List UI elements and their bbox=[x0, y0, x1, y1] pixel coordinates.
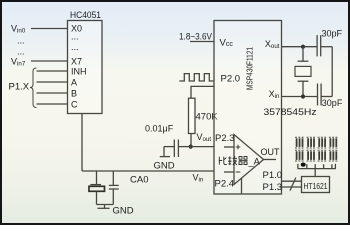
svg-text:MSP430F1121: MSP430F1121 bbox=[245, 47, 254, 90]
label Vin0 bbox=[11, 24, 26, 35]
humidity sensor branch wire bbox=[96, 171, 98, 185]
label HT1621 bbox=[304, 181, 328, 191]
plus input mark bbox=[236, 145, 241, 150]
wire INH input bbox=[37, 70, 68, 72]
LCD backplane comb connector bbox=[298, 164, 336, 169]
svg-text:P2.3: P2.3 bbox=[215, 133, 235, 144]
humidity sensor element bbox=[89, 185, 105, 205]
wire HC4051 output stub down bbox=[81, 114, 83, 172]
svg-text:A: A bbox=[71, 77, 77, 87]
minus input mark bbox=[236, 171, 241, 173]
wire comparator output bbox=[264, 159, 277, 161]
svg-text:B: B bbox=[71, 88, 77, 98]
resistor R1 470K bbox=[189, 98, 196, 133]
pin label X0 bbox=[71, 24, 82, 34]
wire P1.3 to HT1621 bbox=[282, 186, 302, 188]
label 470K bbox=[196, 112, 219, 123]
capacitor C3 30pF top bbox=[317, 35, 332, 56]
wire C input bbox=[37, 103, 68, 105]
wire CA0 net (long horizontal) bbox=[82, 170, 214, 172]
svg-text:3578545Hz: 3578545Hz bbox=[264, 107, 317, 117]
wire A input bbox=[37, 81, 68, 83]
pin label P1.0 bbox=[263, 170, 283, 181]
svg-text:...: ... bbox=[71, 42, 79, 52]
IC U1 HC4051 box bbox=[68, 21, 103, 114]
wire resistor bottom to node bbox=[190, 134, 192, 147]
capacitor C (bottom left) bbox=[109, 185, 119, 204]
pin label INH bbox=[71, 66, 87, 76]
svg-text:CA0: CA0 bbox=[130, 175, 148, 186]
label OUT bbox=[261, 147, 281, 157]
ground (bottom left) bbox=[98, 205, 110, 209]
IC U3 HT1621 box bbox=[302, 177, 330, 193]
svg-text:C: C bbox=[71, 99, 78, 109]
pin label Xin bbox=[269, 89, 280, 100]
svg-text:INH: INH bbox=[71, 66, 87, 76]
pin label P2.3 bbox=[215, 133, 235, 144]
label CA0 bbox=[130, 175, 148, 186]
IC U2 MSP430F1121 box bbox=[214, 21, 282, 195]
square wave symbol at P2.0 bbox=[179, 74, 214, 81]
svg-text:...: ... bbox=[71, 32, 79, 42]
pin label C bbox=[71, 99, 78, 109]
svg-text:OUT: OUT bbox=[261, 147, 281, 157]
label Vin (net) bbox=[193, 173, 204, 184]
capacitor branch wire bbox=[112, 171, 114, 185]
wire X0 input bbox=[31, 28, 68, 30]
wire Xout bbox=[282, 46, 318, 48]
wire LCD to HT1621 bbox=[314, 169, 316, 177]
svg-text:GND: GND bbox=[113, 206, 134, 217]
pin label Vcc bbox=[220, 37, 234, 48]
label GND (bottom left) bbox=[113, 206, 134, 217]
svg-text:P2.4: P2.4 bbox=[215, 178, 235, 189]
svg-text:HC4051: HC4051 bbox=[70, 10, 101, 21]
svg-text:...: ... bbox=[17, 36, 25, 46]
wire P1.0 to HT1621 bbox=[282, 180, 302, 182]
label 30pF bottom bbox=[322, 98, 343, 108]
capacitor C2 0.01uF bbox=[164, 140, 191, 158]
svg-text:GND: GND bbox=[154, 161, 175, 172]
svg-text:...: ... bbox=[17, 47, 25, 57]
label Vout bbox=[197, 132, 212, 143]
wire Xin bbox=[282, 96, 318, 98]
label MSP430F1121 (vertical) bbox=[245, 47, 254, 90]
label 3578545Hz bbox=[264, 107, 317, 117]
svg-text:P1.3: P1.3 bbox=[263, 182, 283, 193]
svg-text:X7: X7 bbox=[71, 56, 82, 66]
label 30pF top bbox=[322, 29, 343, 39]
node junction dot Vout bbox=[189, 145, 193, 149]
wire P2.3 stub to + input bbox=[224, 146, 234, 148]
svg-text:30pF: 30pF bbox=[322, 98, 343, 108]
pin label A bbox=[71, 77, 77, 87]
label 0.01uF bbox=[145, 124, 174, 134]
wire joining sensor and capacitor bottoms bbox=[97, 204, 114, 206]
svg-text:1.8~3.6V: 1.8~3.6V bbox=[179, 31, 213, 42]
label Vin7 bbox=[11, 56, 26, 67]
label P1.X bbox=[9, 82, 30, 93]
svg-text:P1.X: P1.X bbox=[9, 82, 30, 93]
wire X7 input bbox=[31, 60, 68, 62]
wire resistor top to P2.0 bbox=[191, 86, 214, 98]
wire Vout to P2.3 bbox=[191, 146, 214, 148]
pin label B bbox=[71, 88, 77, 98]
LCD connector dot bbox=[301, 163, 306, 167]
brace for P1.X group bbox=[30, 68, 37, 108]
svg-text:HT1621: HT1621 bbox=[304, 181, 328, 191]
label GND (at 0.01uF) bbox=[154, 161, 175, 172]
capacitor C4 30pF bottom bbox=[318, 84, 333, 106]
wire P2.4 stub to - input bbox=[224, 171, 234, 173]
LCD display cells bbox=[295, 137, 338, 161]
svg-text:0.01μF: 0.01μF bbox=[145, 124, 174, 134]
ellipsis rows left of HC4051 bbox=[17, 36, 25, 57]
svg-text:_A: _A bbox=[248, 157, 261, 167]
node junction dot at Xin bbox=[301, 94, 305, 98]
wire right rail between caps bbox=[331, 47, 333, 97]
pin label X7 bbox=[71, 56, 82, 66]
pin label P2.0 bbox=[221, 74, 241, 85]
pin label P2.4 bbox=[215, 178, 235, 189]
ground (at 0.01uF) bbox=[160, 147, 170, 157]
pin ellipsis rows inside HC4051 bbox=[71, 32, 79, 53]
label HC4051 bbox=[70, 10, 101, 21]
crystal Y1 bbox=[295, 47, 311, 97]
label comparator 比较器_A bbox=[219, 156, 260, 166]
svg-text:P1.0: P1.0 bbox=[263, 170, 283, 181]
svg-text:P2.0: P2.0 bbox=[221, 74, 241, 85]
bus slash marker bbox=[290, 178, 296, 191]
wire comparator bias to box bottom bbox=[241, 178, 243, 194]
label 1.8~3.6V bbox=[179, 31, 213, 42]
op-amp comparator A triangle bbox=[234, 135, 264, 185]
pin label Xout bbox=[265, 39, 280, 50]
node junction dot at Xout bbox=[301, 45, 305, 49]
pin label P1.3 bbox=[263, 182, 283, 193]
svg-text:30pF: 30pF bbox=[322, 29, 343, 39]
wire B input bbox=[37, 92, 68, 94]
wire Vcc supply bbox=[190, 41, 214, 43]
